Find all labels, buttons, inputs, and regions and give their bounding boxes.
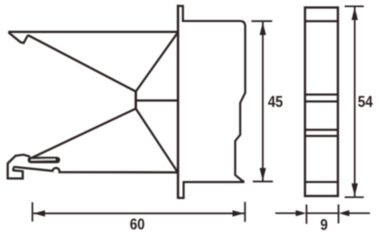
label 45 [268, 94, 283, 111]
label 9 [320, 217, 328, 234]
mid horizontal web [136, 99, 178, 101]
bracket top edge [8, 31, 178, 33]
right view line y94 [305, 94, 338, 96]
diagonal spine to latch slot [32, 109, 136, 158]
dim 9 right tick [338, 204, 340, 223]
right view line y21 [305, 20, 338, 22]
diagonal spine to top-right corner [136, 33, 178, 92]
right view line y101 [305, 100, 338, 102]
dim 54 bottom arrow [352, 183, 358, 196]
right view rectangle [305, 8, 338, 197]
svg-text:54: 54 [358, 94, 374, 111]
dim 54 line [354, 7, 356, 196]
dim 45 top arrow [260, 22, 266, 35]
device wall vertical [177, 5, 179, 199]
label 54 [358, 94, 374, 111]
label 60 [130, 216, 145, 233]
dim 60 left tick [31, 202, 33, 221]
center spine [135, 91, 137, 110]
dim 54 bottom tick [345, 196, 364, 198]
bracket long diagonal from claw to center spine [28, 35, 136, 91]
dim 60 left arrow [34, 210, 46, 216]
bracket bottom edge with pivot bump [13, 167, 177, 173]
latch slot pill slit [31, 159, 56, 161]
dim 9 left arrow [296, 210, 307, 216]
latch slot pill [28, 157, 61, 163]
dim 45 bottom arrow [260, 168, 266, 181]
right view line y130 [305, 129, 338, 131]
latch hook outline [8, 155, 30, 179]
dim 9 left tick [306, 205, 308, 224]
dim 9 left outer line [275, 212, 296, 214]
right view line y182 [305, 181, 338, 183]
bracket top-left rail claw [9, 33, 28, 44]
dim 60 right tick [244, 202, 246, 222]
dim 9 middle line [307, 212, 339, 214]
dim 45 top tick [251, 20, 272, 22]
diagonal spine to bottom-right wall [136, 109, 178, 172]
right view line y136 [305, 135, 338, 137]
dim 54 top arrow [352, 7, 358, 20]
svg-text:60: 60 [130, 216, 145, 233]
dim 9 right outer line [349, 212, 370, 214]
dim 45 line [262, 22, 264, 181]
dim 45 bottom tick [253, 181, 273, 183]
svg-text:9: 9 [320, 217, 328, 234]
svg-text:45: 45 [268, 94, 283, 111]
dim 9 right arrow [339, 210, 350, 216]
dim 60 line [33, 212, 244, 214]
dim 54 top tick [345, 5, 364, 7]
device body outline (chimneys, top, stepped right edge, bottom) [177, 6, 245, 198]
dim 60 right arrow [233, 210, 245, 216]
